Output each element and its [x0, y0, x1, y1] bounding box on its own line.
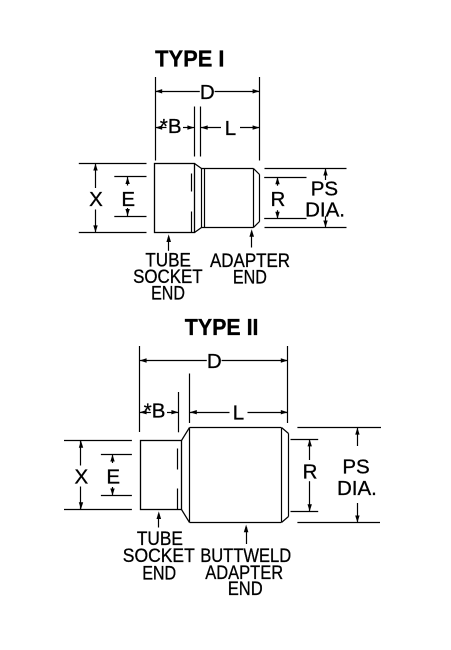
extension line D left (Type I)	[155, 77, 157, 161]
extension line PS bottom (Type I)	[265, 227, 347, 229]
socket depth line lower segment (Type I)	[191, 212, 193, 233]
dimension R lower arrow (Type I)	[277, 210, 279, 219]
dimension PS upper arrow (Type I)	[325, 169, 327, 181]
body right end edge (Type II)	[288, 434, 290, 517]
svg-text:DIA.: DIA.	[337, 477, 377, 500]
svg-text:X: X	[89, 188, 103, 211]
adapter shoulder top diagonal (Type I)	[195, 164, 202, 169]
extension line E bottom (Type II)	[101, 495, 132, 497]
svg-text:D: D	[200, 81, 215, 104]
leader arrow tube socket end (Type I)	[168, 237, 170, 251]
svg-text:END: END	[233, 268, 267, 289]
extension line R bottom (Type II)	[291, 511, 319, 513]
svg-text:*B: *B	[160, 115, 182, 138]
buttweld body top edge (Type II)	[190, 427, 282, 429]
dimension L left arrow (Type II)	[190, 412, 230, 414]
socket depth line lower segment (Type II)	[177, 489, 179, 510]
extension line D left (Type II)	[139, 346, 141, 432]
extension line E top (Type II)	[101, 454, 132, 456]
dimension R upper arrow (Type I)	[277, 177, 279, 186]
dimension D line right segment (Type II)	[222, 360, 288, 362]
leader arrow tube socket end (Type II)	[158, 514, 160, 528]
extension line L left (Type I)	[200, 107, 202, 157]
adapter face line 1 (Type I)	[201, 169, 203, 228]
dimension E lower arrow (Type II)	[112, 487, 114, 496]
leader arrow buttweld adapter end (Type II)	[246, 527, 248, 544]
leader arrow adapter end (Type I)	[251, 232, 253, 248]
adapter bottom edge (Type I)	[202, 227, 254, 229]
extension line L left (Type II)	[189, 374, 191, 424]
tube socket body (Type I)	[155, 164, 195, 233]
svg-text:R: R	[270, 188, 285, 211]
dimension R upper arrow (Type II)	[309, 439, 311, 460]
dimension B right arrow (Type II)	[167, 412, 178, 414]
svg-text:E: E	[106, 465, 120, 488]
svg-text:E: E	[121, 188, 135, 211]
dimension E upper arrow (Type I)	[127, 177, 129, 186]
dimension D line left segment (Type II)	[140, 360, 207, 362]
dimension R lower arrow (Type II)	[309, 481, 311, 511]
extension line B right (Type II)	[178, 392, 180, 432]
extension line D right (Type II)	[287, 346, 289, 423]
extension line X bottom (Type I)	[79, 232, 147, 234]
dimension L right arrow (Type I)	[240, 127, 260, 129]
dimension L right arrow (Type II)	[248, 412, 288, 414]
dimension X upper arrow (Type I)	[95, 164, 97, 189]
extension line R bottom (Type I)	[264, 218, 306, 220]
dimension PS lower arrow (Type II)	[357, 503, 359, 523]
dimension B left arrow (Type II)	[140, 412, 151, 414]
dimension D right arrowhead (Type II)	[281, 358, 288, 362]
dimension D line left segment (Type I)	[155, 91, 200, 93]
dimension PS upper arrow (Type II)	[357, 428, 359, 446]
svg-text:TYPE I: TYPE I	[155, 46, 224, 72]
extension line X top (Type II)	[64, 440, 132, 442]
extension line E top (Type I)	[114, 176, 146, 178]
extension line R top (Type I)	[264, 177, 306, 179]
body shoulder top diagonal (Type II)	[182, 428, 190, 441]
dimension D right arrowhead (Type I)	[253, 89, 260, 93]
extension line X top (Type I)	[79, 163, 147, 165]
extension line B right (Type I)	[194, 107, 196, 157]
adapter shoulder bottom diagonal (Type I)	[195, 228, 202, 233]
dimension X upper arrow (Type II)	[80, 441, 82, 466]
adapter chamfer start line (Type I)	[253, 169, 255, 228]
svg-text:R: R	[303, 461, 318, 484]
adapter top edge (Type I)	[202, 168, 254, 170]
extension line PS top (Type II)	[297, 427, 381, 429]
extension line E bottom (Type I)	[114, 216, 146, 218]
extension line R top (Type II)	[291, 439, 319, 441]
body bottom chamfer (Type II)	[282, 517, 289, 523]
dimension PS lower arrow (Type I)	[325, 216, 327, 227]
svg-text:END: END	[151, 283, 185, 304]
adapter top chamfer (Type I)	[254, 169, 260, 175]
body top chamfer (Type II)	[282, 428, 289, 434]
dimension E lower arrow (Type I)	[127, 208, 129, 216]
svg-text:END: END	[228, 579, 263, 600]
svg-text:*B: *B	[144, 400, 166, 423]
svg-text:L: L	[225, 117, 236, 140]
svg-text:PS: PS	[311, 178, 338, 201]
dimension D line right segment (Type I)	[215, 91, 260, 93]
dimension B right arrow (Type I)	[183, 127, 194, 129]
svg-text:END: END	[142, 563, 176, 584]
dimension L left arrow (Type I)	[201, 127, 221, 129]
svg-text:L: L	[233, 402, 244, 425]
extension line PS bottom (Type II)	[297, 522, 380, 524]
dimension X lower arrow (Type I)	[95, 210, 97, 233]
extension line D right (Type I)	[259, 77, 261, 161]
socket depth line upper segment (Type I)	[191, 174, 193, 192]
dimension D left arrowhead (Type I)	[155, 89, 162, 93]
svg-text:D: D	[207, 350, 222, 373]
svg-text:TYPE II: TYPE II	[185, 314, 259, 340]
buttweld body left edge (Type II)	[189, 428, 191, 523]
body chamfer start line (Type II)	[281, 428, 283, 523]
adapter right end edge (Type I)	[259, 175, 261, 222]
extension line X bottom (Type II)	[64, 509, 132, 511]
dimension X lower arrow (Type II)	[80, 487, 82, 510]
svg-text:PS: PS	[342, 456, 369, 479]
buttweld body bottom edge (Type II)	[190, 522, 282, 524]
svg-text:X: X	[75, 465, 89, 488]
adapter face line 2 (Type I)	[204, 169, 206, 228]
tube socket body (Type II)	[141, 441, 182, 510]
body shoulder bottom diagonal (Type II)	[182, 510, 190, 523]
dimension B left arrow (Type I)	[155, 127, 166, 129]
svg-text:DIA.: DIA.	[305, 199, 345, 222]
dimension D left arrowhead (Type II)	[140, 358, 147, 362]
adapter bottom chamfer (Type I)	[254, 222, 260, 228]
extension line PS top (Type I)	[265, 168, 347, 170]
socket depth line upper segment (Type II)	[177, 449, 179, 470]
dimension E upper arrow (Type II)	[112, 455, 114, 464]
